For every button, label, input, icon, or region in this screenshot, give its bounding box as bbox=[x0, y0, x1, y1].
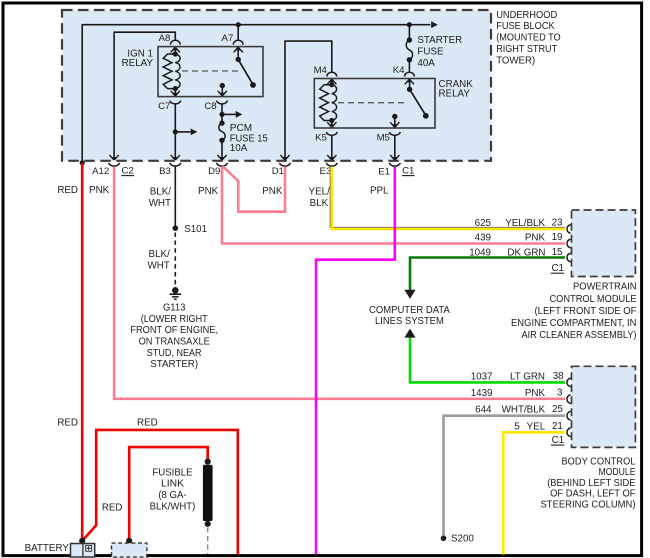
wire: dashed continuation below fusible link bbox=[207, 528, 209, 555]
branch arrow to other circuit (from C7 wire) bbox=[175, 131, 190, 133]
junction: bus tap to A7 bbox=[236, 22, 241, 27]
label BODY CONTROL MODULE location bbox=[541, 456, 637, 510]
svg-text:5: 5 bbox=[514, 421, 520, 432]
svg-text:RELAY: RELAY bbox=[439, 88, 471, 99]
pin A12 connector bbox=[109, 163, 120, 166]
svg-text:BLK: BLK bbox=[310, 198, 329, 209]
junction block (dashed) bbox=[112, 543, 147, 557]
svg-text:D1: D1 bbox=[272, 166, 284, 177]
fusible link F3 (8 GA BLK/WHT) bbox=[203, 459, 213, 527]
wire: LT GRN circuit 1037 from BCM pin 38 to data lines bbox=[410, 337, 565, 382]
wire: C8 down to PCM fuse bbox=[221, 104, 223, 124]
pin E3 exit arrow bbox=[327, 155, 331, 160]
svg-text:B3: B3 bbox=[159, 166, 171, 177]
wire: RED from battery positive to off-page (down right side) bbox=[82, 430, 237, 555]
svg-text:(8 GA-: (8 GA- bbox=[158, 490, 186, 501]
CRANK coil output arrow to K5 bbox=[327, 122, 331, 127]
svg-text:K5: K5 bbox=[315, 133, 327, 144]
pin K4 connector bbox=[405, 72, 415, 76]
junction on C7-B3 wire bbox=[173, 129, 178, 134]
relay U2 CRANK RELAY box bbox=[314, 79, 435, 129]
IGN1 switch feed arrow (pin A7 entry) bbox=[234, 48, 238, 53]
svg-text:PNK: PNK bbox=[262, 186, 283, 197]
underhood fuse block enclosure (dashed, blue fill) bbox=[62, 10, 491, 161]
label circuit 644 WHT/BLK pin 25 bbox=[475, 404, 563, 416]
pin A8 connector bbox=[170, 40, 180, 44]
wire: K5 to fuse block pin E3 bbox=[331, 135, 333, 159]
BCM pin 21 bracket bbox=[567, 428, 571, 437]
label circuit 5 YEL pin 21 bbox=[514, 421, 563, 433]
pin M5 connector bbox=[389, 132, 400, 135]
junction on C8 wire bbox=[219, 112, 224, 117]
svg-text:(LEFT FRONT SIDE OF: (LEFT FRONT SIDE OF bbox=[535, 306, 637, 317]
pin E3 connector bbox=[326, 163, 337, 166]
pin M4 connector bbox=[327, 72, 337, 76]
svg-text:(LOWER RIGHT: (LOWER RIGHT bbox=[141, 314, 208, 325]
wire: PPL circuit from pin E1 off-page bbox=[316, 167, 395, 555]
fuse F2 PCM FUSE 15 10A bbox=[219, 120, 225, 143]
svg-text:A7: A7 bbox=[222, 33, 234, 44]
svg-text:S101: S101 bbox=[184, 224, 207, 235]
svg-text:D9: D9 bbox=[208, 166, 220, 177]
svg-text:(BEHIND LEFT SIDE: (BEHIND LEFT SIDE bbox=[547, 478, 636, 489]
BCM pin 3 bracket bbox=[567, 395, 571, 404]
label BLK/WHT (B3) bbox=[149, 187, 172, 209]
wire: RED junction block to fusible link bbox=[129, 447, 208, 540]
BCM pin 38 bracket bbox=[567, 378, 571, 387]
svg-text:TOWER): TOWER) bbox=[496, 56, 535, 67]
svg-text:625: 625 bbox=[475, 218, 492, 229]
svg-text:STARTER): STARTER) bbox=[150, 359, 198, 370]
svg-text:C8: C8 bbox=[204, 101, 216, 112]
label circuit 1037 LT GRN pin 38 bbox=[471, 371, 564, 383]
svg-text:C1: C1 bbox=[552, 435, 565, 446]
svg-text:LINES SYSTEM: LINES SYSTEM bbox=[375, 316, 444, 327]
svg-text:UNDERHOOD: UNDERHOOD bbox=[496, 10, 557, 21]
svg-text:AIR CLEANER ASSEMBLY): AIR CLEANER ASSEMBLY) bbox=[522, 330, 637, 341]
svg-text:YEL/: YEL/ bbox=[309, 187, 331, 198]
pin D9 exit arrow bbox=[217, 155, 221, 160]
pin A7 connector bbox=[233, 40, 243, 44]
svg-text:E3: E3 bbox=[320, 166, 332, 177]
CRANK relay actuator dashed link bbox=[338, 102, 406, 104]
svg-text:PNK: PNK bbox=[198, 186, 219, 197]
pin E1 exit arrow bbox=[390, 155, 394, 160]
junction: red feed splice on fuse block edge bbox=[80, 160, 85, 165]
pin C7 connector bbox=[170, 101, 181, 104]
svg-text:(MOUNTED TO: (MOUNTED TO bbox=[496, 33, 561, 44]
wire: RED battery feed from fuse block splice to battery positive bbox=[81, 163, 84, 540]
svg-text:COMPUTER DATA: COMPUTER DATA bbox=[369, 305, 450, 316]
svg-text:BODY CONTROL: BODY CONTROL bbox=[562, 456, 637, 467]
pin D9 connector bbox=[217, 163, 228, 166]
IGN1 relay switch arm bbox=[236, 47, 256, 88]
label POWERTRAIN CONTROL MODULE location bbox=[511, 282, 637, 342]
pin B3 connector bbox=[170, 163, 181, 166]
svg-text:23: 23 bbox=[552, 217, 563, 228]
svg-text:ON TRANSAXLE: ON TRANSAXLE bbox=[139, 337, 211, 348]
junction: bus tap to starter fuse bbox=[407, 22, 412, 27]
svg-text:RELAY: RELAY bbox=[122, 58, 154, 69]
svg-text:FUSE BLOCK: FUSE BLOCK bbox=[496, 21, 555, 32]
junction block terminal bbox=[126, 538, 132, 544]
CRANK switch feed arrow (pin K4 entry) bbox=[405, 80, 409, 85]
svg-text:LINK: LINK bbox=[161, 479, 184, 490]
IGN1 switch contact to C8 bbox=[218, 83, 227, 96]
label PCM FUSE 15 10A bbox=[230, 123, 268, 154]
pin K5 connector bbox=[326, 132, 337, 135]
svg-text:FUSE: FUSE bbox=[417, 47, 444, 58]
svg-text:RIGHT STRUT: RIGHT STRUT bbox=[496, 44, 557, 55]
fuse F1 STARTER FUSE 40A bbox=[406, 37, 412, 62]
PCM pin 23 bracket bbox=[567, 225, 571, 234]
underhood fuse block location label bbox=[496, 10, 561, 67]
pin E1 connector bbox=[389, 163, 400, 166]
battery B1 bbox=[71, 544, 95, 558]
IGN1 relay coil (resistor zigzag and winding) bbox=[163, 47, 180, 96]
pin A12 exit arrow bbox=[110, 155, 114, 160]
label IGN 1 RELAY bbox=[122, 48, 154, 69]
svg-text:C1: C1 bbox=[551, 263, 564, 274]
svg-text:BLK/: BLK/ bbox=[149, 249, 171, 260]
svg-text:STARTER: STARTER bbox=[417, 35, 462, 46]
wire: bus drop to starter fuse bbox=[408, 25, 410, 40]
CRANK coil feed arrow (pin M4 entry) bbox=[327, 80, 331, 85]
svg-text:WHT: WHT bbox=[147, 260, 169, 271]
battery B1 positive terminal bbox=[79, 538, 85, 544]
svg-text:BLK/WHT): BLK/WHT) bbox=[150, 501, 196, 512]
wire: PNK circuit 439 from pin D9 to PCM pin 19 bbox=[222, 167, 565, 244]
label YEL/BLK (E3) bbox=[309, 187, 331, 209]
wire: bus drop to relay pin A7 bbox=[237, 25, 239, 41]
svg-text:439: 439 bbox=[475, 232, 491, 243]
wire: DK GRN circuit 1049 from PCM pin 15 to data lines bbox=[410, 258, 565, 291]
svg-text:1049: 1049 bbox=[469, 247, 491, 258]
pin D1 connector bbox=[280, 163, 291, 166]
BCM pin 25 bracket bbox=[567, 411, 571, 420]
svg-text:A8: A8 bbox=[159, 33, 171, 44]
svg-text:M5: M5 bbox=[377, 133, 390, 144]
svg-text:PNK: PNK bbox=[525, 232, 546, 243]
svg-text:YEL/BLK: YEL/BLK bbox=[505, 218, 545, 229]
svg-text:1439: 1439 bbox=[471, 388, 493, 399]
label circuit 439 PNK pin 19 bbox=[475, 232, 563, 244]
wire: A12 riser to relay pin A8 bbox=[114, 32, 175, 158]
svg-text:G113: G113 bbox=[163, 303, 186, 314]
pin D1 exit arrow bbox=[280, 155, 284, 160]
wire: starter fuse to relay pin K4 bbox=[408, 60, 410, 72]
svg-text:RED: RED bbox=[57, 418, 78, 429]
svg-text:MODULE: MODULE bbox=[599, 467, 636, 478]
wire: dashed BLK/WHT from S101 to G113 bbox=[174, 233, 176, 286]
svg-text:FUSIBLE: FUSIBLE bbox=[152, 467, 193, 478]
svg-text:ENGINE COMPARTMENT, IN: ENGINE COMPARTMENT, IN bbox=[511, 318, 637, 329]
svg-text:BATTERY: BATTERY bbox=[25, 543, 70, 554]
svg-text:PNK: PNK bbox=[89, 185, 110, 196]
IGN1 relay actuator dashed link bbox=[182, 70, 240, 72]
svg-text:RED: RED bbox=[137, 418, 158, 429]
svg-text:1037: 1037 bbox=[471, 371, 493, 382]
IGN1 coil output arrow to C7 bbox=[171, 91, 175, 96]
wire: battery feed bus from splice up and across the fuse block bbox=[82, 25, 430, 162]
svg-text:OF DASH, LEFT OF: OF DASH, LEFT OF bbox=[550, 489, 635, 500]
wire: coil loop from pin M4 to fuse block pin D1 bbox=[285, 41, 332, 159]
wire: PNK circuit 1439 from pin A12 to BCM pin 3 bbox=[114, 167, 565, 399]
svg-text:15: 15 bbox=[552, 247, 563, 258]
svg-text:E1: E1 bbox=[378, 166, 390, 177]
svg-text:RED: RED bbox=[57, 185, 78, 196]
relay U1 IGN 1 RELAY box bbox=[158, 47, 263, 97]
pin B3 exit arrow bbox=[171, 155, 175, 160]
wire: BLK/WHT from pin B3 to splice S101 bbox=[174, 167, 176, 229]
svg-text:FRONT OF ENGINE,: FRONT OF ENGINE, bbox=[130, 325, 218, 336]
wire: YEL/BLK circuit 625 from pin E3 to PCM pin 23 bbox=[332, 167, 565, 229]
IGN1 coil feed arrow (pin A8 entry) bbox=[171, 48, 175, 53]
label circuit 625 YEL/BLK pin 23 bbox=[475, 217, 563, 229]
PCM pin 19 bracket bbox=[567, 239, 571, 248]
svg-text:38: 38 bbox=[553, 371, 564, 382]
wire: C7 to fuse block pin B3 bbox=[174, 104, 176, 159]
svg-text:C7: C7 bbox=[158, 101, 170, 112]
svg-text:BLK/: BLK/ bbox=[150, 187, 172, 198]
CRANK switch contact to M5 bbox=[390, 114, 399, 128]
svg-text:RED: RED bbox=[102, 502, 123, 513]
module BCM box (dashed) bbox=[572, 366, 636, 447]
wire: PCM fuse to fuse block pin D9 bbox=[221, 140, 223, 158]
pin C8 connector bbox=[217, 101, 228, 104]
svg-text:21: 21 bbox=[552, 421, 563, 432]
wire: WHT/BLK circuit 644 from BCM pin 25 to splice S200 bbox=[444, 416, 566, 538]
splice S200 bbox=[441, 536, 447, 542]
wire: YEL/BLK tracer stripe bbox=[330, 167, 565, 228]
splice S101 bbox=[173, 225, 179, 231]
PCM pin 15 bracket bbox=[567, 253, 571, 262]
module PCM box (dashed) bbox=[572, 210, 636, 277]
CRANK relay switch arm bbox=[407, 79, 429, 119]
svg-text:PPL: PPL bbox=[370, 185, 389, 196]
svg-text:25: 25 bbox=[552, 404, 563, 415]
wire: YEL circuit 5 from BCM pin 21 off-page bbox=[503, 432, 565, 554]
label STARTER FUSE 40A bbox=[417, 35, 462, 69]
label circuit 1439 PNK pin 3 bbox=[471, 388, 563, 400]
svg-text:DK GRN: DK GRN bbox=[507, 247, 545, 258]
label circuit 1049 DK GRN pin 15 bbox=[469, 247, 563, 258]
svg-text:YEL: YEL bbox=[527, 421, 546, 432]
label G113 location bbox=[130, 303, 218, 371]
svg-text:S200: S200 bbox=[451, 534, 474, 545]
svg-text:40A: 40A bbox=[417, 58, 435, 69]
svg-text:M4: M4 bbox=[314, 65, 328, 76]
svg-text:A12: A12 bbox=[92, 166, 109, 177]
svg-text:K4: K4 bbox=[393, 65, 405, 76]
label FUSIBLE LINK (8 GA- BLK/WHT) bbox=[150, 467, 196, 512]
svg-text:WHT: WHT bbox=[149, 198, 171, 209]
label BLK/WHT (S101-G113) bbox=[147, 249, 170, 272]
svg-text:CONTROL MODULE: CONTROL MODULE bbox=[550, 294, 637, 305]
svg-text:WHT/BLK: WHT/BLK bbox=[502, 405, 546, 416]
label COMPUTER DATA LINES SYSTEM bbox=[369, 305, 450, 327]
svg-text:POWERTRAIN: POWERTRAIN bbox=[573, 282, 637, 293]
CRANK relay coil (resistor zigzag and winding) bbox=[320, 79, 337, 127]
svg-text:STEERING COLUMN): STEERING COLUMN) bbox=[541, 499, 636, 510]
svg-text:10A: 10A bbox=[230, 143, 248, 154]
label CRANK RELAY bbox=[439, 79, 474, 100]
ground G113 bbox=[170, 287, 182, 299]
wire: M5 to fuse block pin E1 bbox=[394, 135, 396, 159]
svg-text:3: 3 bbox=[557, 388, 563, 399]
svg-text:19: 19 bbox=[552, 232, 563, 243]
svg-text:LT GRN: LT GRN bbox=[510, 371, 545, 382]
branch arrow to other circuit (from C8 wire) bbox=[222, 113, 236, 115]
svg-text:PNK: PNK bbox=[525, 388, 546, 399]
svg-text:STUD, NEAR: STUD, NEAR bbox=[147, 348, 202, 359]
wire: PNK jumper from pin D9 to pin D1 bbox=[223, 166, 285, 212]
svg-text:644: 644 bbox=[475, 405, 492, 416]
